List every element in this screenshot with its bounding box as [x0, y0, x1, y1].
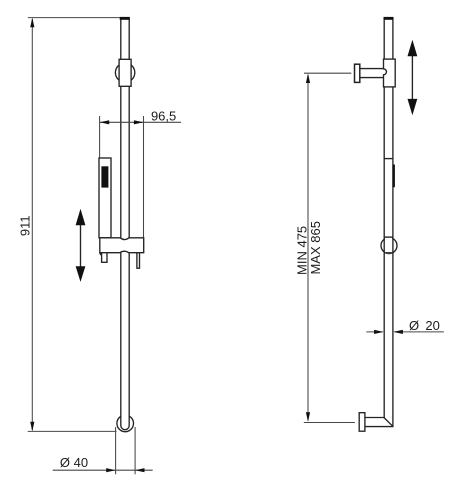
svg-text:20: 20 — [425, 318, 439, 333]
svg-text:MAX 865: MAX 865 — [308, 221, 323, 274]
svg-text:Ø: Ø — [409, 318, 419, 333]
svg-text:96,5: 96,5 — [151, 108, 176, 123]
svg-text:911: 911 — [18, 215, 33, 236]
svg-text:Ø 40: Ø 40 — [60, 455, 88, 470]
